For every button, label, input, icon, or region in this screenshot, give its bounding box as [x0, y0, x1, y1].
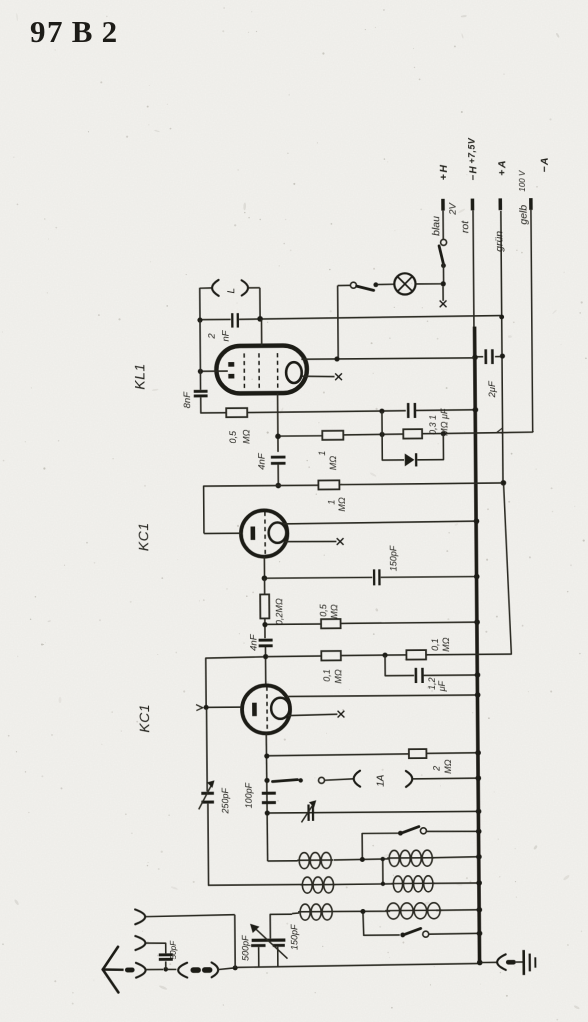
- svg-text:KC1: KC1: [136, 704, 152, 733]
- svg-text:MΩ: MΩ: [329, 604, 339, 619]
- svg-text:gelb: gelb: [518, 205, 530, 225]
- svg-text:0,1: 0,1: [430, 638, 440, 651]
- svg-text:MΩ: MΩ: [337, 497, 347, 512]
- svg-text:150pF: 150pF: [388, 545, 398, 571]
- svg-text:0,5: 0,5: [318, 603, 328, 617]
- svg-text:MΩ μF: MΩ μF: [439, 408, 449, 436]
- svg-text:4nF: 4nF: [257, 452, 268, 470]
- svg-text:1A: 1A: [376, 774, 387, 787]
- svg-text:MΩ: MΩ: [333, 669, 343, 684]
- svg-text:1: 1: [317, 451, 327, 456]
- svg-text:0,5: 0,5: [228, 430, 238, 444]
- svg-text:0,1: 0,1: [322, 669, 332, 682]
- svg-text:+H: +H: [438, 163, 450, 180]
- svg-text:μF: μF: [437, 680, 447, 692]
- svg-text:1,2: 1,2: [427, 677, 437, 690]
- svg-text:150pF: 150pF: [289, 924, 299, 950]
- svg-text:2: 2: [432, 766, 442, 772]
- svg-text:nF: nF: [221, 329, 232, 341]
- svg-text:MΩ: MΩ: [441, 637, 451, 652]
- svg-text:MΩ: MΩ: [241, 429, 251, 444]
- svg-text:1: 1: [326, 500, 336, 505]
- svg-text:grün: grün: [493, 231, 505, 252]
- svg-text:250pF: 250pF: [220, 787, 230, 814]
- svg-text:500pF: 500pF: [240, 935, 250, 961]
- svg-text:+7,5V: +7,5V: [467, 137, 477, 163]
- svg-text:8nF: 8nF: [182, 391, 193, 409]
- svg-text:−H: −H: [468, 165, 479, 181]
- svg-text:2: 2: [207, 333, 218, 340]
- svg-text:100 V: 100 V: [518, 170, 527, 192]
- svg-text:+A: +A: [496, 159, 508, 176]
- svg-text:100pF: 100pF: [244, 782, 254, 808]
- svg-text:MΩ: MΩ: [328, 456, 338, 471]
- svg-text:KC1: KC1: [135, 522, 151, 551]
- svg-text:2V: 2V: [448, 201, 459, 215]
- svg-text:−A: −A: [539, 156, 551, 172]
- svg-text:blau: blau: [430, 216, 442, 236]
- svg-text:rot: rot: [459, 220, 471, 233]
- svg-text:MΩ: MΩ: [443, 759, 453, 774]
- svg-text:0,2MΩ: 0,2MΩ: [274, 598, 284, 625]
- svg-text:50pF: 50pF: [169, 940, 178, 960]
- svg-text:L: L: [226, 288, 237, 294]
- svg-text:4nF: 4nF: [248, 633, 259, 651]
- svg-text:KL1: KL1: [131, 363, 147, 390]
- svg-text:2μF: 2μF: [487, 380, 498, 399]
- svg-text:0,3 1: 0,3 1: [428, 415, 438, 435]
